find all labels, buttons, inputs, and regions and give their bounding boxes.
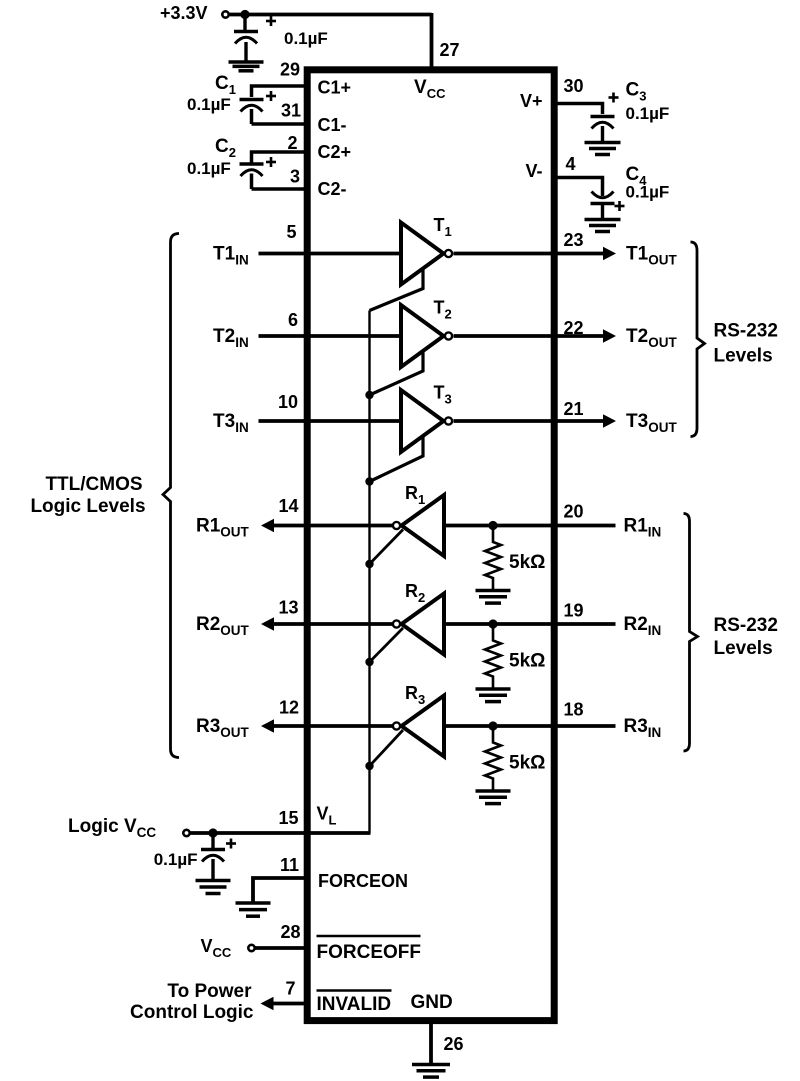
- svg-text:5kΩ: 5kΩ: [509, 552, 545, 573]
- svg-text:C2: C2: [215, 136, 236, 160]
- svg-text:FORCEON: FORCEON: [318, 871, 408, 891]
- svg-text:TTL/CMOS: TTL/CMOS: [45, 474, 142, 495]
- svg-text:R1OUT: R1OUT: [196, 516, 250, 540]
- svg-text:R3IN: R3IN: [624, 716, 662, 740]
- svg-text:C2-: C2-: [318, 179, 347, 199]
- svg-text:RS-232: RS-232: [714, 615, 778, 636]
- svg-text:Levels: Levels: [714, 638, 773, 659]
- svg-text:R2OUT: R2OUT: [196, 614, 250, 638]
- svg-text:5kΩ: 5kΩ: [509, 651, 545, 672]
- svg-text:11: 11: [280, 855, 299, 875]
- svg-text:V+: V+: [520, 91, 543, 111]
- svg-text:R1IN: R1IN: [624, 516, 662, 540]
- svg-text:T2OUT: T2OUT: [626, 326, 677, 350]
- svg-text:21: 21: [564, 399, 584, 419]
- svg-text:31: 31: [281, 101, 301, 121]
- svg-text:7: 7: [285, 979, 295, 999]
- svg-text:VCC: VCC: [414, 77, 446, 101]
- svg-text:0.1µF: 0.1µF: [626, 183, 670, 202]
- svg-text:T1IN: T1IN: [213, 244, 249, 268]
- svg-text:6: 6: [288, 310, 298, 330]
- svg-text:26: 26: [444, 1034, 464, 1054]
- svg-text:0.1µF: 0.1µF: [284, 29, 328, 48]
- svg-text:0.1µF: 0.1µF: [187, 95, 231, 114]
- svg-text:T2IN: T2IN: [213, 326, 249, 350]
- svg-text:T1OUT: T1OUT: [626, 244, 677, 268]
- svg-text:19: 19: [564, 601, 584, 621]
- svg-text:0.1µF: 0.1µF: [154, 850, 198, 869]
- svg-text:5kΩ: 5kΩ: [509, 753, 545, 774]
- svg-text:R3: R3: [405, 683, 425, 707]
- svg-text:14: 14: [278, 496, 298, 516]
- svg-text:C1+: C1+: [318, 78, 352, 98]
- svg-text:12: 12: [279, 698, 299, 718]
- svg-text:R1: R1: [405, 483, 425, 507]
- svg-text:R3OUT: R3OUT: [196, 716, 250, 740]
- svg-text:20: 20: [564, 502, 584, 522]
- svg-text:4: 4: [566, 154, 576, 174]
- svg-text:15: 15: [278, 808, 298, 828]
- svg-text:27: 27: [440, 40, 460, 60]
- svg-text:5: 5: [286, 222, 296, 242]
- svg-text:Control Logic: Control Logic: [130, 1002, 254, 1023]
- svg-text:+3.3V: +3.3V: [160, 3, 208, 23]
- svg-text:C1-: C1-: [318, 115, 347, 135]
- svg-text:22: 22: [564, 318, 584, 338]
- svg-text:2: 2: [287, 133, 297, 153]
- svg-text:13: 13: [278, 598, 298, 618]
- svg-text:T1: T1: [434, 215, 452, 239]
- svg-text:RS-232: RS-232: [714, 321, 778, 342]
- svg-text:18: 18: [564, 700, 584, 720]
- svg-text:R2: R2: [405, 581, 425, 605]
- svg-text:INVALID: INVALID: [317, 994, 392, 1015]
- svg-text:Logic Levels: Logic Levels: [30, 496, 145, 517]
- svg-text:10: 10: [278, 392, 298, 412]
- svg-text:FORCEOFF: FORCEOFF: [317, 942, 422, 963]
- svg-text:3: 3: [290, 167, 300, 187]
- svg-text:VL: VL: [317, 804, 337, 828]
- svg-text:T3: T3: [434, 383, 452, 407]
- svg-text:23: 23: [564, 230, 584, 250]
- svg-text:C1: C1: [215, 73, 236, 97]
- svg-text:Logic VCC: Logic VCC: [68, 816, 156, 840]
- svg-text:29: 29: [280, 60, 300, 80]
- svg-text:0.1µF: 0.1µF: [187, 159, 231, 178]
- svg-text:0.1µF: 0.1µF: [626, 104, 670, 123]
- svg-text:C2+: C2+: [318, 142, 352, 162]
- svg-text:30: 30: [564, 76, 584, 96]
- svg-text:28: 28: [280, 922, 300, 942]
- svg-text:C3: C3: [626, 80, 647, 104]
- svg-text:R2IN: R2IN: [624, 614, 662, 638]
- svg-text:To Power: To Power: [167, 981, 252, 1002]
- svg-text:T3OUT: T3OUT: [626, 411, 677, 435]
- svg-text:Levels: Levels: [714, 346, 773, 367]
- svg-text:VCC: VCC: [201, 936, 232, 960]
- svg-text:T3IN: T3IN: [213, 411, 249, 435]
- svg-text:T2: T2: [434, 298, 452, 322]
- svg-text:V-: V-: [525, 161, 542, 181]
- svg-text:GND: GND: [411, 992, 453, 1013]
